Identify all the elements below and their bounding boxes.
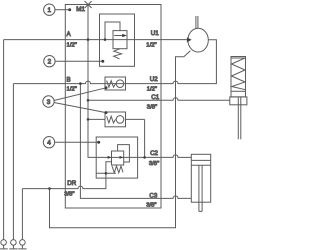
check valve CV1 ball: [116, 80, 124, 88]
svg-text:3: 3: [47, 99, 51, 106]
svg-text:1/2": 1/2": [67, 86, 77, 92]
svg-text:U2: U2: [150, 76, 158, 83]
spring brake chamber: [231, 57, 246, 97]
svg-text:1: 1: [48, 7, 52, 14]
wire stem port3 vertical: [21, 189, 23, 240]
spring brake rod: [238, 97, 241, 139]
node B riser tee: [79, 82, 82, 85]
svg-text:3/8": 3/8": [146, 202, 156, 208]
svg-text:1/2": 1/2": [67, 42, 77, 48]
svg-text:2: 2: [48, 59, 52, 66]
relief valve RV1 arrow: [114, 35, 122, 37]
spring brake spring: [232, 58, 246, 90]
svg-text:C1: C1: [151, 94, 159, 101]
node check2 input tee on riser: [87, 118, 90, 121]
leader 3 lower: [54, 103, 106, 113]
reducing valve RV2 arrow left: [108, 156, 112, 159]
reducing valve RV2 drain line: [96, 172, 116, 174]
svg-text:3/8": 3/8": [64, 192, 74, 198]
callout circle 2: [44, 56, 55, 67]
wire B/U2 line y=83.6 with hops at x=88 and x=175.5, up to motor right port: [13, 40, 216, 84]
cylinder rod: [199, 165, 202, 211]
svg-text:C3: C3: [149, 193, 157, 200]
reducing valve RV2 through line: [112, 156, 124, 158]
relief valve RV1 body: [113, 31, 127, 49]
check valve CV2 spring: [107, 116, 116, 123]
wire stem port2 vertical: [12, 84, 14, 240]
port circle 3 tail: [18, 245, 26, 249]
leader 2: [55, 60, 103, 62]
reducing valve RV2 drain branch to valve: [106, 162, 112, 174]
svg-text:U1: U1: [151, 30, 159, 37]
node RV2 drain to DR tee: [105, 172, 108, 175]
port circle 3 bottom: [20, 240, 26, 246]
wire C2 line from valve outlet to cylinder, hop at x=175.5: [124, 155, 191, 158]
wire M1/A riser x=88 from top line to C2 level, then to reducing valve inlet: [88, 5, 112, 158]
node RV1 pilot tee: [104, 38, 107, 41]
wire stem port1 vertical: [3, 40, 5, 240]
hydraulic motor M: [188, 28, 208, 52]
svg-text:M1: M1: [76, 6, 85, 13]
wire B riser x=80.4 down to C3 line, C3 to cylinder with hop: [80, 84, 191, 199]
spring brake body: [230, 97, 247, 105]
wire C1 line y=100.3 from riser to brake body, hop at x=175.5: [88, 98, 230, 101]
cylinder body: [191, 154, 210, 202]
port circle 1 bottom: [1, 240, 7, 246]
reducing valve RV2 arrow right: [120, 156, 124, 159]
callout circle 1: [44, 4, 55, 15]
node riser bottom on C2: [143, 156, 146, 159]
reducing valve RV2 body: [112, 151, 124, 165]
check valve CV1 box: [105, 77, 126, 90]
main enclosure box: [65, 5, 161, 209]
relief valve RV1 pilot line: [105, 22, 120, 40]
wire DR line y=188.6 with hop at x=80.4, corner up at x=106.4: [22, 173, 106, 188]
svg-text:B: B: [67, 76, 71, 83]
wire check2 input line: [88, 118, 105, 120]
cylinder piston: [191, 160, 210, 165]
svg-text:1/2": 1/2": [146, 42, 156, 48]
wire A port line y=39.6 from stem to motor arrow: [4, 39, 187, 41]
port circle 1 tail: [0, 245, 8, 249]
wire motor case drain: DR down, bottom run, up right side to motor bottom port: [50, 51, 191, 228]
relief valve RV1 spring: [114, 49, 122, 59]
check valve CV2 ball: [116, 116, 124, 124]
reducing valve RV2 outer box: [96, 137, 137, 178]
leader 3 upper: [54, 88, 106, 101]
reducing valve RV2 spring: [112, 166, 123, 173]
node C1 tee on riser: [87, 99, 90, 102]
svg-text:C2: C2: [150, 150, 158, 157]
node A-riser junction on A line: [87, 38, 90, 41]
check valve CV1 spring: [107, 81, 116, 88]
port circle 2 bottom: [11, 240, 17, 246]
svg-text:1/2": 1/2": [147, 86, 157, 92]
callout circle 3: [43, 96, 54, 107]
wire check2 output line: [126, 118, 145, 120]
motor shaft: [196, 16, 198, 28]
leader 4: [55, 141, 99, 143]
wire C1-C2 riser x=144.6: [144, 119, 146, 157]
motor inlet arrow: [187, 37, 192, 42]
svg-text:3/8": 3/8": [149, 161, 159, 167]
port circle 2 tail: [9, 245, 17, 249]
reducing valve RV2 pilot loop: [118, 145, 130, 162]
node DR branch junction: [48, 187, 51, 190]
svg-text:A: A: [67, 31, 72, 38]
leader 1: [55, 9, 70, 11]
relief valve RV1 outer box: [100, 14, 135, 66]
svg-text:4: 4: [47, 140, 51, 147]
plug X M1: [85, 1, 92, 8]
svg-text:DR: DR: [67, 180, 76, 187]
svg-text:3/8": 3/8": [147, 105, 157, 111]
check valve CV2 box: [105, 112, 126, 127]
callout circle 4: [43, 137, 54, 148]
spring brake piston line: [231, 90, 246, 92]
